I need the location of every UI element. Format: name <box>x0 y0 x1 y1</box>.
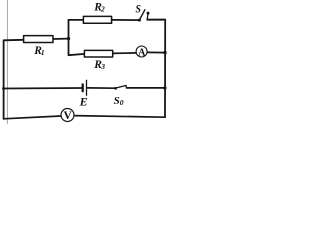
wire: top branch to R2 <box>69 19 84 21</box>
wire: R1 to junction <box>53 38 68 40</box>
wire: voltmeter rail left <box>4 116 61 119</box>
svg-text:S: S <box>136 3 141 16</box>
svg-text:V: V <box>64 110 73 122</box>
node: right conductor / battery rail <box>163 86 166 89</box>
battery E short plate <box>82 84 84 91</box>
wire: switch S0 to right corner <box>126 87 164 89</box>
page rule (faint vertical scan line) <box>6 0 8 124</box>
node: right conductor / ammeter branch <box>163 51 166 54</box>
switch S0 lever <box>116 86 126 89</box>
svg-text:0: 0 <box>120 98 124 107</box>
node: S0 pivot <box>114 87 117 90</box>
svg-text:S: S <box>114 95 120 107</box>
wire: switch S to right conductor <box>147 19 165 21</box>
switch S lever <box>139 10 145 20</box>
svg-text:2: 2 <box>100 5 105 14</box>
node: left conductor / battery rail <box>2 87 5 90</box>
svg-text:1: 1 <box>41 48 45 57</box>
wire: battery rail <box>4 87 82 90</box>
node: switch S pivot <box>138 19 141 22</box>
wire: right vertical conductor <box>147 20 165 118</box>
wire: left vertical conductor <box>4 40 24 119</box>
wire: ammeter to right conductor <box>147 51 165 53</box>
node: switch S contact <box>147 12 150 15</box>
voltmeter V <box>61 109 74 122</box>
svg-text:E: E <box>79 95 88 109</box>
node: S0 contact <box>125 85 127 87</box>
wire: battery to switch S0 <box>88 87 115 89</box>
label S (top switch) <box>136 3 141 16</box>
node: junction at R1/branches <box>67 37 70 40</box>
wire: voltmeter rail right <box>74 116 165 118</box>
ammeter A <box>136 46 147 57</box>
resistor R1 <box>24 36 53 43</box>
switch S right terminal post <box>146 14 149 19</box>
svg-text:3: 3 <box>100 62 105 71</box>
svg-text:A: A <box>138 47 146 58</box>
resistor R2 <box>83 16 111 23</box>
wire: R3 to ammeter <box>113 52 136 55</box>
wire: junction vertical and branch elbow <box>69 20 85 55</box>
resistor R3 <box>84 50 112 57</box>
battery E long plate <box>86 80 88 95</box>
wire: R2 to switch S <box>112 19 140 21</box>
